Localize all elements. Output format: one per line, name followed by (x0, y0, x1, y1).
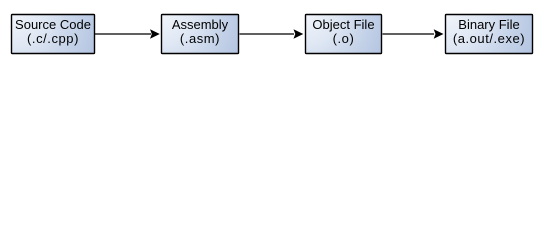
border of box Object File (306, 15, 382, 54)
arrow Source Code to Assembly (95, 33, 151, 35)
border of box Binary File (446, 15, 533, 54)
box Source Code (.c/.cpp) (11, 14, 95, 54)
arrow Assembly to Object File (240, 33, 295, 35)
border of box Assembly (162, 15, 239, 54)
border of box Source Code (12, 15, 95, 54)
box Assembly (.asm) (161, 14, 239, 54)
box Object File (.o) (305, 14, 382, 54)
arrow Object File to Binary File (383, 33, 435, 35)
box Binary File (a.out/.exe) (445, 14, 533, 54)
